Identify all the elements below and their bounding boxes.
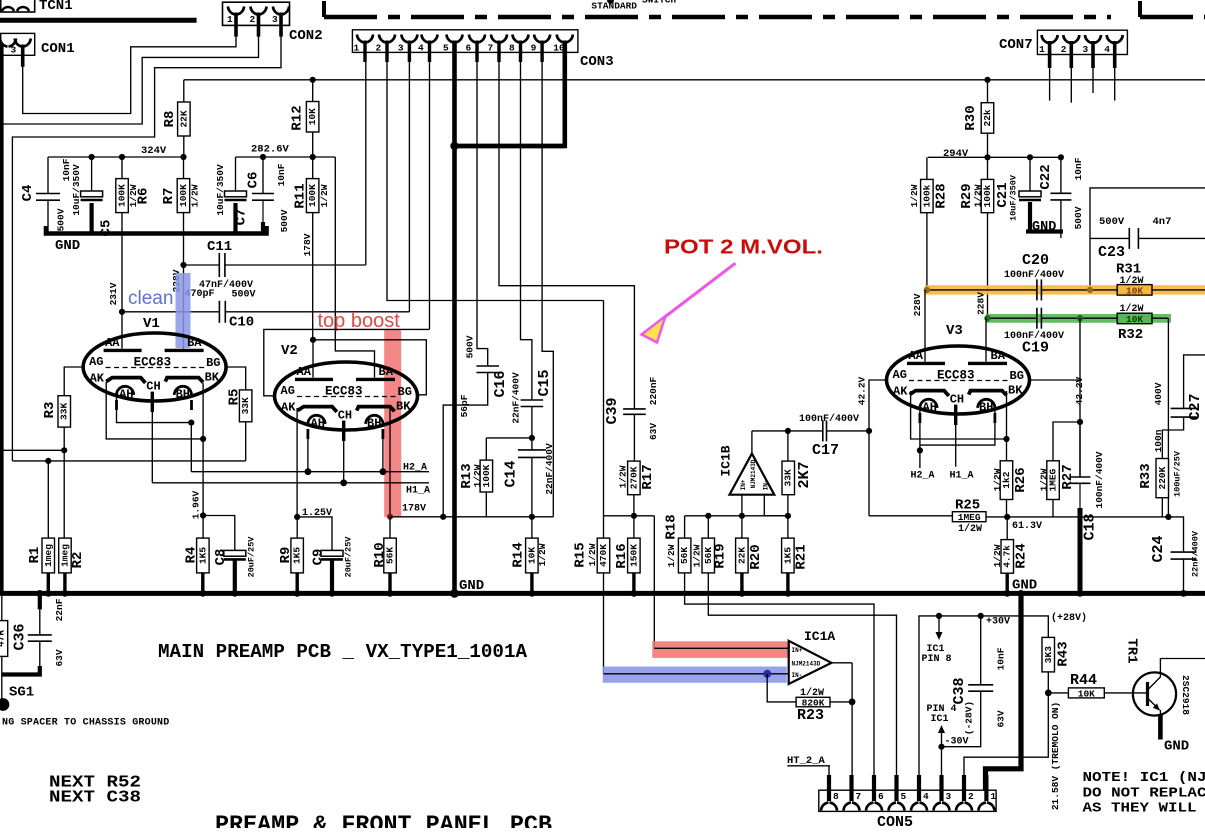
resistor R28 wires xyxy=(926,157,928,179)
V3 heater center tick CH xyxy=(954,405,957,425)
wire from lower-left to CON2 pin3 xyxy=(12,36,281,461)
svg-text:AK: AK xyxy=(90,372,105,386)
svg-text:C15: C15 xyxy=(536,369,553,396)
svg-text:H2_A: H2_A xyxy=(911,471,935,482)
svg-text:BK: BK xyxy=(1008,384,1023,398)
svg-text:22nF/400V: 22nF/400V xyxy=(511,372,522,424)
resistor R15 bottom wire to blue wire xyxy=(603,573,605,674)
resistor R28 xyxy=(921,179,934,212)
V3 BK wire xyxy=(1006,391,1008,439)
dashed enclosure line top right segment xyxy=(1138,1,1142,17)
CON7 pin 3 fork xyxy=(1085,35,1093,43)
svg-text:1K5: 1K5 xyxy=(782,547,793,564)
output node wire y=517 xyxy=(986,516,1168,518)
V3 heater wires xyxy=(919,409,921,469)
svg-text:1/2W: 1/2W xyxy=(587,543,598,566)
svg-text:47R: 47R xyxy=(0,630,7,647)
CON7 pin 2 fork xyxy=(1063,35,1071,43)
V1 anode bar BA xyxy=(165,349,204,352)
svg-text:CON3: CON3 xyxy=(580,54,614,70)
capacitor C23 xyxy=(1128,228,1130,249)
svg-text:10K: 10K xyxy=(1126,285,1143,296)
svg-text:63V: 63V xyxy=(648,423,659,440)
svg-text:R14: R14 xyxy=(511,542,527,567)
resistor R14 xyxy=(526,538,539,573)
green bus wire xyxy=(988,317,1037,319)
node line 324V xyxy=(48,156,186,158)
wire from right edge 500V to orange bus xyxy=(1090,188,1205,290)
svg-text:500V: 500V xyxy=(465,335,476,358)
svg-text:2: 2 xyxy=(250,14,256,25)
svg-text:TR1: TR1 xyxy=(1124,638,1140,663)
V3 heater pin tick BH xyxy=(994,413,997,423)
svg-text:294V: 294V xyxy=(943,148,969,160)
node dot R30 top on bus xyxy=(984,77,990,83)
capacitor C8 wires xyxy=(203,516,235,551)
capacitor C39 xyxy=(623,408,646,410)
svg-text:470K: 470K xyxy=(598,544,609,567)
svg-text:10nF: 10nF xyxy=(996,647,1007,670)
svg-text:100k: 100k xyxy=(982,184,993,207)
triode V2 ECC83 envelope xyxy=(275,362,418,430)
svg-text:100nF/400V: 100nF/400V xyxy=(799,413,859,425)
svg-text:AA: AA xyxy=(909,349,924,363)
CON3 pin6 wire down to C16 xyxy=(477,62,488,366)
svg-text:R12: R12 xyxy=(290,105,306,130)
svg-text:STANDARD: STANDARD xyxy=(591,1,637,12)
capacitor C10 wires xyxy=(122,311,219,313)
svg-text:C23: C23 xyxy=(1098,244,1125,261)
CON3 pin 6 fork xyxy=(469,35,477,43)
node dot V1 heater xyxy=(188,420,194,426)
wire from left edge to CON2 pin2 xyxy=(0,36,259,124)
resistor R8 xyxy=(178,102,191,136)
svg-text:R9: R9 xyxy=(278,547,294,564)
svg-text:CON2: CON2 xyxy=(289,28,323,44)
svg-text:4: 4 xyxy=(1104,44,1110,55)
capacitor C18 xyxy=(1070,476,1091,478)
wire V3 BG to C18 column xyxy=(1030,379,1080,381)
svg-text:10nF: 10nF xyxy=(1073,157,1084,180)
svg-text:R26: R26 xyxy=(1013,467,1029,492)
svg-text:2: 2 xyxy=(1061,44,1067,55)
svg-text:C24: C24 xyxy=(1150,535,1167,562)
resistor R6 wires xyxy=(121,157,123,179)
capacitor C24 wires xyxy=(1168,517,1183,552)
svg-text:56pF: 56pF xyxy=(459,394,470,417)
svg-text:IC1B: IC1B xyxy=(719,445,734,476)
svg-text:R24: R24 xyxy=(1014,543,1030,568)
HT bus wire y=80 xyxy=(184,79,1205,81)
input node wire y=516 xyxy=(685,515,788,517)
opamp IC1B triangle xyxy=(730,454,775,495)
V3 anode bar AA xyxy=(907,362,945,365)
resistor R16 wires xyxy=(633,516,635,538)
CON2 pin 3 fork xyxy=(273,7,281,15)
V3 anode bar BA xyxy=(968,362,1007,365)
svg-text:PIN 8: PIN 8 xyxy=(922,654,952,665)
CON5 pin 4 fork xyxy=(911,803,919,811)
resistor R30 xyxy=(981,103,994,134)
svg-text:1/2W: 1/2W xyxy=(992,468,1003,491)
svg-text:63V: 63V xyxy=(996,710,1007,727)
heater rail H2_A xyxy=(191,471,429,473)
GND bus junction dots xyxy=(36,590,43,597)
capacitor C6 wires xyxy=(262,157,264,194)
svg-text:C11: C11 xyxy=(207,239,232,255)
svg-text:1/2W: 1/2W xyxy=(472,464,483,487)
svg-text:R43: R43 xyxy=(1056,641,1072,666)
svg-text:R44: R44 xyxy=(1070,672,1097,689)
capacitor C19 xyxy=(1036,308,1038,329)
V1 cathode bracket BK xyxy=(165,378,203,383)
svg-text:1.96V: 1.96V xyxy=(191,490,202,519)
svg-text:BA: BA xyxy=(991,349,1006,363)
resistor R12 wires xyxy=(312,80,314,102)
blue highlighted wire xyxy=(604,673,789,675)
svg-text:220K: 220K xyxy=(1157,466,1168,489)
svg-text:2SC2918: 2SC2918 xyxy=(1180,675,1191,715)
arrow line magenta POT2 xyxy=(662,263,736,319)
capacitor C20 xyxy=(1036,279,1038,300)
resistor R44 wires xyxy=(1048,692,1068,694)
svg-text:1/2W: 1/2W xyxy=(958,523,982,535)
resistor R43 xyxy=(1042,637,1055,672)
wire V2 AA xyxy=(312,340,314,378)
svg-text:22K: 22K xyxy=(178,110,189,127)
svg-text:BA: BA xyxy=(187,336,202,350)
svg-text:H1_A: H1_A xyxy=(950,471,974,482)
wire V2 anode node box to BG xyxy=(313,340,426,395)
arrowhead yellow xyxy=(642,316,666,343)
svg-text:22K: 22K xyxy=(736,547,747,564)
svg-text:CON7: CON7 xyxy=(999,37,1033,53)
svg-text:4: 4 xyxy=(418,43,424,54)
svg-text:56K: 56K xyxy=(679,547,690,564)
resistor R20 wires xyxy=(741,516,743,538)
SG1 chassis ground blob xyxy=(0,699,9,710)
V3 heater pin tick AH xyxy=(919,413,922,423)
V3 cathode bracket BK xyxy=(969,391,1007,396)
CON3 pin4 wire down xyxy=(429,62,431,329)
svg-text:61.3V: 61.3V xyxy=(1012,521,1042,532)
node dot R23 output xyxy=(849,699,856,706)
svg-text:1/2W: 1/2W xyxy=(973,184,984,207)
V2 heater pin tick BH xyxy=(381,429,384,439)
svg-text:C16: C16 xyxy=(492,370,509,397)
svg-text:IN-: IN- xyxy=(792,672,803,679)
resistor R1 xyxy=(42,538,55,573)
svg-text:IN+: IN+ xyxy=(740,479,747,490)
orange bus wire xyxy=(927,289,1037,291)
CON7 pin 1 fork xyxy=(1042,35,1050,43)
svg-text:100K: 100K xyxy=(117,184,128,207)
svg-text:178V: 178V xyxy=(302,233,313,256)
svg-text:33K: 33K xyxy=(783,469,794,486)
svg-text:AG: AG xyxy=(893,368,907,382)
svg-text:7: 7 xyxy=(856,791,862,802)
left vertical thick wire to GND bus xyxy=(0,44,4,593)
svg-text:GND: GND xyxy=(1164,739,1189,755)
svg-text:1/2W: 1/2W xyxy=(190,184,201,207)
svg-text:BA: BA xyxy=(379,365,394,379)
C21 to GND bracket thick xyxy=(1028,202,1032,231)
V1 heater pin tick AH xyxy=(115,400,118,410)
IC1 pin8 arrow wire xyxy=(938,616,940,632)
svg-text:C22: C22 xyxy=(1038,164,1054,189)
wire green to C18 column down xyxy=(1079,318,1081,477)
R23 to output wire xyxy=(830,701,852,703)
svg-text:10K: 10K xyxy=(526,547,537,564)
svg-text:228V: 228V xyxy=(976,292,987,315)
CON5 pin 2 fork xyxy=(956,803,964,811)
resistor R12 xyxy=(306,102,319,133)
svg-text:10nF: 10nF xyxy=(276,163,287,186)
svg-text:C10: C10 xyxy=(229,315,254,331)
svg-text:C39: C39 xyxy=(604,397,621,424)
svg-text:5: 5 xyxy=(443,43,449,54)
CON3 pin3 wire down xyxy=(408,62,410,312)
+30V rail wire xyxy=(919,616,1048,779)
svg-text:10uF/350V: 10uF/350V xyxy=(71,164,82,216)
V2 heater arc AH xyxy=(308,415,325,424)
capacitor C15 bottom wire xyxy=(531,407,533,438)
svg-text:22nF/400V: 22nF/400V xyxy=(1191,530,1201,577)
resistor R9 wires xyxy=(296,517,298,538)
resistor R26 bottom wire xyxy=(1006,500,1008,518)
V1 heater AH wire xyxy=(117,396,192,423)
node dot R43 bottom xyxy=(1045,690,1052,697)
svg-text:AA: AA xyxy=(105,336,120,350)
svg-text:NOTE! IC1 (NJ: NOTE! IC1 (NJ xyxy=(1083,771,1205,786)
wire down to red highlighted wire xyxy=(653,516,655,649)
svg-text:CH: CH xyxy=(146,380,160,394)
wire V3 AA xyxy=(924,290,926,362)
svg-text:NG SPACER TO CHASSIS GROUND: NG SPACER TO CHASSIS GROUND xyxy=(2,718,169,729)
resistor R24 xyxy=(1001,540,1014,574)
svg-text:C6: C6 xyxy=(246,172,262,189)
resistor R18 wires xyxy=(684,516,686,538)
svg-text:10: 10 xyxy=(553,43,565,54)
svg-text:R30: R30 xyxy=(963,105,979,130)
svg-text:100k: 100k xyxy=(921,184,932,207)
capacitor C15 plates xyxy=(521,399,544,401)
svg-text:100K: 100K xyxy=(178,184,189,207)
svg-text:+30V: +30V xyxy=(986,617,1010,628)
capacitor C7 wires xyxy=(235,157,237,191)
V3 heater arc AH xyxy=(920,399,937,408)
node 231V dot xyxy=(119,309,125,315)
wire V2 AG jog xyxy=(264,329,430,395)
CON1 pin 2 fork xyxy=(0,39,8,47)
svg-text:R7: R7 xyxy=(161,188,177,205)
V1 heater center tick CH xyxy=(151,392,154,412)
connector CON5 box xyxy=(819,790,996,811)
svg-text:500V: 500V xyxy=(279,209,290,232)
svg-text:1/2W: 1/2W xyxy=(992,544,1003,567)
svg-text:20uF/25V: 20uF/25V xyxy=(247,536,257,578)
IC1 pin4 arrow wire xyxy=(941,733,943,747)
svg-text:1/2W: 1/2W xyxy=(909,184,920,207)
svg-text:SWITCH: SWITCH xyxy=(642,0,677,6)
node 1.25V xyxy=(294,514,300,520)
capacitor C39 bottom wire xyxy=(633,414,635,461)
svg-text:R23: R23 xyxy=(797,707,824,724)
CON5 pin 8 fork xyxy=(821,803,829,811)
svg-text:1meg: 1meg xyxy=(59,544,70,567)
svg-text:R2: R2 xyxy=(70,552,86,569)
resistor R10 wires xyxy=(389,517,391,538)
svg-text:DO NOT REPLAC: DO NOT REPLAC xyxy=(1083,787,1205,802)
svg-text:1: 1 xyxy=(1039,44,1045,55)
resistor R25 wires xyxy=(869,515,952,517)
resistor R7 wires xyxy=(183,157,185,179)
CON7 pin1 wire xyxy=(1049,68,1051,101)
dashed enclosure line top xyxy=(322,1,326,17)
CON3 pin2 wire down xyxy=(387,62,604,301)
svg-text:R3: R3 xyxy=(42,402,58,419)
svg-text:R21: R21 xyxy=(794,544,810,569)
V2 BK wire 178V xyxy=(389,408,391,517)
thick wire y146 to right xyxy=(455,144,565,149)
resistor R27 wires xyxy=(1053,422,1080,461)
svg-text:C38: C38 xyxy=(951,677,968,704)
CON7 pin2 wire xyxy=(1070,68,1072,103)
svg-text:clean: clean xyxy=(128,288,173,309)
resistor R15 wires xyxy=(603,301,605,539)
svg-text:CON1: CON1 xyxy=(41,41,75,57)
capacitor C22 xyxy=(1050,192,1071,194)
TR1 collector xyxy=(1148,659,1205,691)
CON3 pin10 thick wire xyxy=(455,62,565,146)
svg-text:3: 3 xyxy=(946,791,952,802)
CON3 pin 10 fork xyxy=(557,35,565,43)
svg-text:1meg: 1meg xyxy=(43,544,54,567)
svg-text:7: 7 xyxy=(488,43,494,54)
svg-text:V1: V1 xyxy=(143,316,160,332)
resistor R33 xyxy=(1156,459,1169,498)
node dot 61.3V xyxy=(1004,514,1010,520)
resistor R16 xyxy=(628,538,641,573)
V1 anode bar AA xyxy=(104,349,142,352)
node line 282.6V xyxy=(236,156,336,158)
resistor R24 wires xyxy=(1006,517,1008,540)
V2 grid dashed line xyxy=(297,396,396,398)
svg-text:SG1: SG1 xyxy=(9,685,34,701)
svg-text:22nF/400V: 22nF/400V xyxy=(544,443,555,495)
node line 294V xyxy=(928,156,1061,158)
svg-text:C9: C9 xyxy=(311,549,327,566)
V1 heater arc AH xyxy=(117,386,134,395)
svg-text:AG: AG xyxy=(89,355,103,369)
wire V1 AA from 231V xyxy=(121,312,123,349)
svg-text:10K: 10K xyxy=(1126,314,1143,325)
svg-text:150K: 150K xyxy=(628,544,639,567)
CON5 pin 1 fork xyxy=(978,803,986,811)
V3 cathode bracket AK xyxy=(910,391,949,396)
capacitor C36 return thick wire xyxy=(2,666,40,675)
resistor 47R at left edge xyxy=(1,593,3,620)
node dot right xyxy=(1165,514,1171,520)
highlight stripe blue clean xyxy=(176,273,191,348)
svg-text:H1_A: H1_A xyxy=(406,486,430,497)
wire R43 node to CON5 pin2 xyxy=(964,693,1048,779)
capacitor C10 xyxy=(218,301,220,323)
CON3 pin 9 fork xyxy=(534,35,542,43)
capacitor C21 electrolytic xyxy=(1019,191,1041,197)
GND thick wire to CON5 pin1 xyxy=(986,593,1022,790)
svg-text:400V: 400V xyxy=(1153,382,1164,405)
svg-text:33K: 33K xyxy=(59,403,70,420)
svg-text:IC1: IC1 xyxy=(931,714,949,725)
svg-text:R11: R11 xyxy=(293,183,309,208)
CON3 pin 4 fork xyxy=(422,35,430,43)
svg-text:NEXT C38: NEXT C38 xyxy=(49,789,141,808)
IC1A output wire xyxy=(831,662,852,664)
switch dot xyxy=(607,0,614,4)
svg-text:R28: R28 xyxy=(934,183,950,208)
svg-text:BK: BK xyxy=(396,400,411,414)
svg-text:2: 2 xyxy=(968,791,974,802)
svg-text:C36: C36 xyxy=(12,623,29,650)
wire R5 bottom xyxy=(245,422,247,461)
IC1A output to CON5 pin7 xyxy=(851,663,853,779)
svg-text:H2_A: H2_A xyxy=(403,463,427,474)
svg-text:6: 6 xyxy=(466,43,472,54)
resistor R17 xyxy=(628,461,641,495)
-30V node dot xyxy=(938,744,944,750)
feedback wire y=431 xyxy=(752,430,823,432)
connector CON3 box xyxy=(352,30,578,53)
svg-text:500V: 500V xyxy=(1073,206,1084,229)
resistor R7 xyxy=(177,179,190,213)
resistor R43 bottom wire xyxy=(1047,672,1049,693)
svg-text:231V: 231V xyxy=(108,282,119,305)
highlight stripe red top boost V2 cathode xyxy=(384,330,401,517)
svg-text:324V: 324V xyxy=(141,145,167,157)
CON5 pin 7 fork xyxy=(844,803,852,811)
svg-text:C7: C7 xyxy=(234,209,250,226)
capacitor C8 electrolytic xyxy=(224,550,246,556)
resistor R19 wires xyxy=(707,516,709,538)
CON3 pin 1 fork xyxy=(357,35,365,43)
resistor R18 bottom wire to CON5 pin6 xyxy=(685,573,874,779)
svg-text:AA: AA xyxy=(297,365,312,379)
heater rail H1_A xyxy=(151,412,153,483)
capacitor C38 wires xyxy=(980,616,982,685)
resistor R9 xyxy=(291,538,304,573)
svg-text:228V: 228V xyxy=(912,293,923,316)
wire V3 AG to C17 node xyxy=(869,380,886,516)
wire node to left edge xyxy=(2,449,64,451)
wire HT_2_A to CON5 pin8 xyxy=(828,766,830,779)
svg-text:R16: R16 xyxy=(614,543,630,568)
svg-text:BG: BG xyxy=(398,385,412,399)
node dot R1 top xyxy=(45,458,51,464)
svg-text:TCN1: TCN1 xyxy=(39,0,73,14)
V2 heater center tick CH xyxy=(342,421,345,441)
green highlight bus xyxy=(986,314,1171,323)
node dot R3 bottom xyxy=(61,447,67,453)
resistor R15 xyxy=(597,538,610,573)
svg-text:R19: R19 xyxy=(713,543,729,568)
resistor R3 xyxy=(58,396,71,427)
CON3 pin8 wire down to C15 xyxy=(521,62,532,400)
capacitor C27 xyxy=(1171,407,1197,409)
connector TCN1 box xyxy=(1,0,35,12)
capacitor C6 xyxy=(252,193,274,195)
svg-text:PREAMP & FRONT PANEL PCB: PREAMP & FRONT PANEL PCB xyxy=(215,812,552,828)
